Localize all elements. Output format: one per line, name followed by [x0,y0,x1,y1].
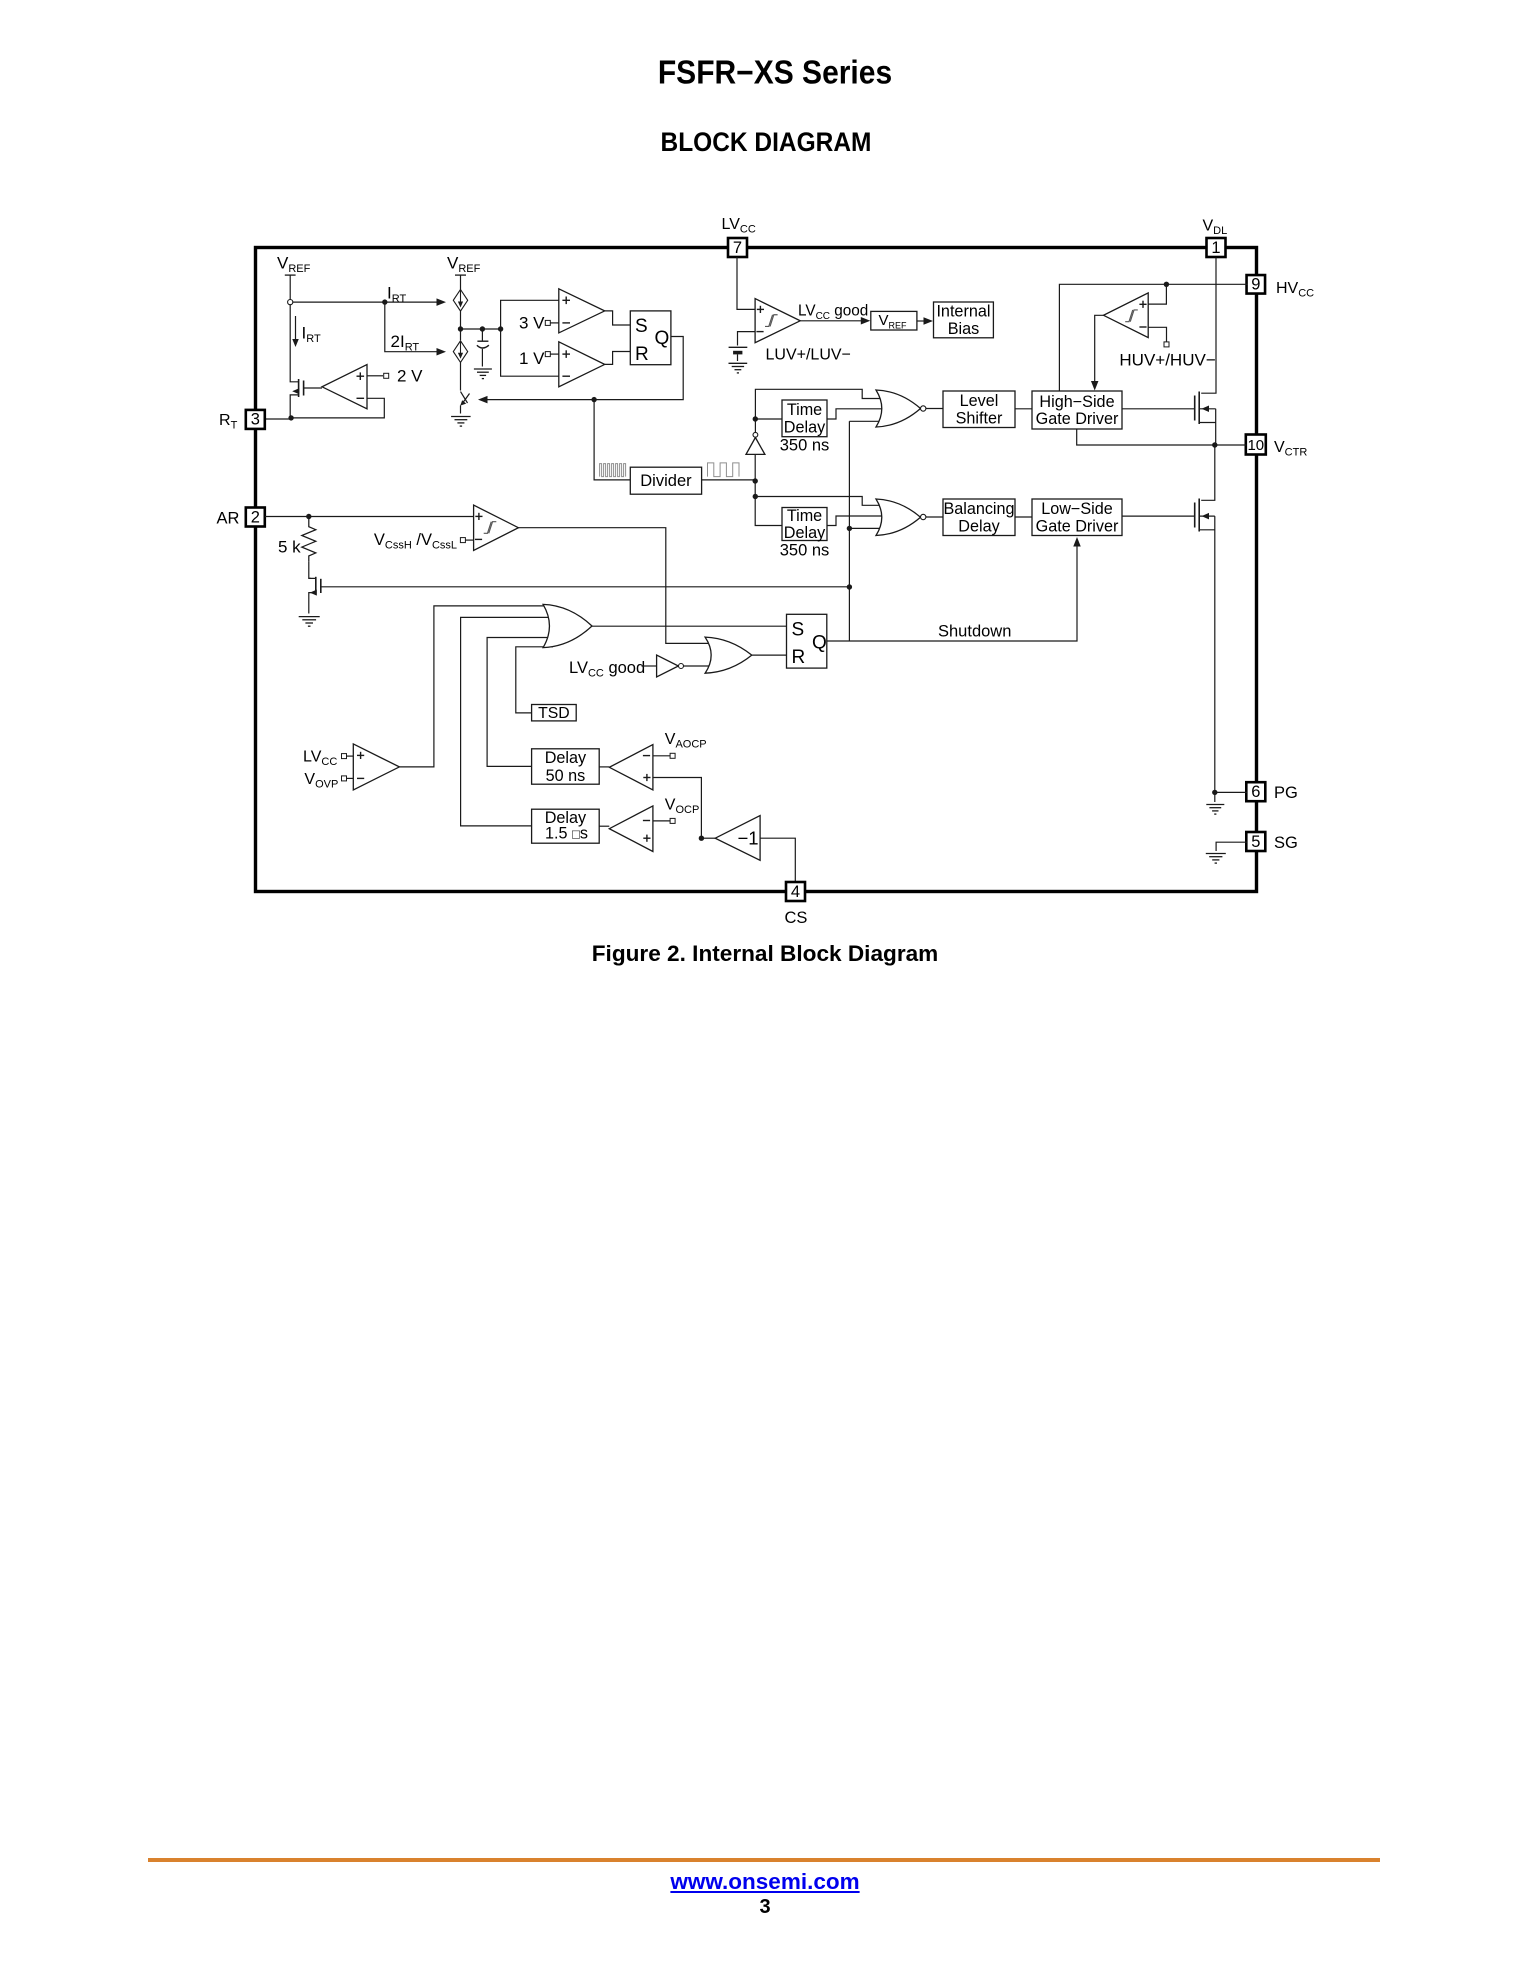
wire [599,766,609,768]
wire to NOR2 direct [755,497,882,506]
arrowhead [1073,537,1081,547]
transistor Q4 (soft-start reset) [315,577,317,595]
ground [474,368,492,370]
svg-text:5: 5 [1251,833,1260,851]
wire [347,755,354,757]
wire op-amp + input [367,375,383,377]
wire + input [1148,284,1166,304]
wire AOCP + input [653,778,702,839]
wire [701,837,715,839]
svg-text:350 ns: 350 ns [780,437,830,455]
waveform glyph (high-freq) [600,464,626,477]
svg-text:VOCP: VOCP [665,797,700,817]
svg-text:RT: RT [219,412,238,432]
delay 1.5 us block [532,809,600,843]
wire TD1 to NOR [827,409,884,419]
comparator U12 (OVP) [353,744,399,790]
pin 9 (HVCC) [1247,275,1266,294]
svg-text:IRT: IRT [302,324,321,346]
wire OVP to OR input 1 [399,606,553,767]
pin 7 (LVCC) [728,238,747,257]
wire HVCC rail [1059,284,1247,391]
svg-text:Balancing: Balancing [943,500,1014,518]
svg-text:Delay: Delay [784,419,826,437]
wire I_RT to current source [293,301,437,303]
junction [1212,790,1217,795]
arrowhead [478,396,488,404]
svg-text:VDL: VDL [1203,218,1228,238]
wire VCTR rail [1077,429,1247,445]
junction [753,494,758,499]
wire [460,275,462,289]
ground SG [1206,853,1226,855]
wire [460,362,462,390]
comparator U14 (OCP) [609,806,653,852]
wire shutdown to NOR2 [849,527,886,529]
divider block [630,467,701,494]
svg-text:1: 1 [1211,239,1220,257]
wire delay1.5 to OR input 2 [461,617,551,826]
pin 5 (SG) [1246,832,1265,851]
inverting amp U15 (-1) [715,816,760,861]
wire [550,322,559,324]
svg-text:7: 7 [733,239,742,257]
wire [1216,842,1247,851]
svg-text:Q: Q [812,633,827,654]
svg-text:Bias: Bias [948,320,980,338]
pin 3 (RT) [246,410,265,429]
wire [755,481,782,526]
junction [498,326,503,331]
wire comparator output to OR [518,528,716,644]
current flow arrow I_RT [295,316,297,342]
arrowhead [437,298,447,306]
wire [550,353,559,355]
terminal VCssH/VCssL [460,538,465,543]
junction [591,397,596,402]
wire [1015,408,1032,410]
svg-text:S: S [792,620,805,641]
svg-text:VCssH /VCssL: VCssH /VCssL [374,531,457,552]
svg-text:LVCC: LVCC [722,216,756,236]
wire NOR1 out [926,408,943,410]
terminal VOCP [670,818,675,823]
junction [306,514,311,519]
junction [699,836,704,841]
wire TD2 to NOR [827,516,884,526]
svg-text:6: 6 [1251,783,1260,801]
wire [460,311,462,340]
pin 6 (PG) [1246,782,1265,801]
wire NOR2 out [926,516,943,518]
wire - input [738,332,756,346]
wire TSD to OR input 4 [516,647,553,713]
pin 2 (AR) [246,508,265,527]
TSD block [532,705,577,721]
svg-text:3: 3 [251,411,260,429]
wire shutdown to NOR1 [849,420,886,422]
transistor Q1 (current mirror) [298,379,300,397]
wire [754,455,756,481]
wire to divider [594,400,630,480]
svg-text:2: 2 [251,508,260,526]
wire [465,539,473,541]
wire to capacitor and comparators [461,328,501,330]
svg-text:Delay: Delay [784,524,826,542]
svg-text:Time: Time [787,401,822,419]
svg-text:Internal: Internal [936,303,990,321]
wire to time delay 1 [755,418,782,420]
wire [653,820,670,822]
terminal 3V [545,320,550,325]
svg-text:PG: PG [1274,784,1298,802]
svg-text:Divider: Divider [640,472,692,490]
terminal LVCC [342,754,347,759]
IC boundary box [256,248,1257,892]
svg-text:50 ns: 50 ns [546,767,586,785]
wire [289,275,291,299]
svg-text:R: R [792,647,806,668]
comparator U3 (1V) [559,342,605,387]
wire LVCC good [800,320,861,322]
svg-text:−1: −1 [738,828,759,849]
junction [753,416,758,421]
wire [653,755,670,757]
time delay block TD2 [782,508,827,541]
wire [1215,791,1247,793]
arrowhead [1091,381,1099,391]
internal bias block [934,302,994,338]
wire shutdown riser [848,421,850,641]
svg-text:Shutdown: Shutdown [938,623,1011,641]
svg-text:LVCC: LVCC [303,749,337,769]
wire divider output [702,479,756,481]
svg-text:AR: AR [217,510,240,528]
wire pin7 to comparator [737,257,755,309]
wire OR to S [592,625,787,627]
wire [290,305,298,382]
wire to pin 3 [265,418,291,420]
svg-text:LVCC good: LVCC good [798,303,868,323]
svg-text:Gate Driver: Gate Driver [1036,518,1119,536]
svg-text:VCTR: VCTR [1274,439,1307,459]
svg-text:Q: Q [655,328,670,349]
terminal HUV [1164,342,1169,347]
wire [1015,516,1032,518]
wire comparator U2 to S [605,311,631,325]
svg-text:VREF: VREF [447,254,481,276]
wire HUV output [1095,315,1104,382]
wire OR to R [752,654,787,656]
svg-text:Shifter: Shifter [956,410,1003,428]
junction [1212,442,1217,447]
wire [917,320,924,322]
comparator U9 (LVCC UVLO) [755,299,800,343]
svg-text:10: 10 [1247,437,1264,454]
arrowhead [437,348,447,356]
terminal VAOCP [670,753,675,758]
svg-text:LUV+/LUV−: LUV+/LUV− [766,347,851,364]
OR gate U11 (fault OR) [543,604,592,647]
svg-text:SG: SG [1274,834,1298,852]
wire [642,665,657,667]
junction [847,526,852,531]
wire Q feedback to switch [480,337,683,400]
svg-text:VOVP: VOVP [304,771,338,791]
current source CS2 (2I_RT) [453,341,467,363]
wire 2I_RT branch [385,302,437,352]
wire pin1 drop [1201,258,1216,394]
svg-text:HVCC: HVCC [1276,280,1314,300]
ground [451,416,471,418]
svg-text:1 V: 1 V [519,349,545,368]
wire [1201,445,1215,500]
wire [599,825,609,827]
svg-text:Low−Side: Low−Side [1041,500,1113,518]
arrowhead [924,317,934,325]
svg-text:2 V: 2 V [397,367,423,386]
transistor Q2 (high-side MOSFET) [1198,392,1200,425]
svg-text:5 k: 5 k [278,538,301,557]
svg-text:S: S [635,316,648,337]
NOR gate U6 [876,390,921,427]
ground PG [1206,804,1224,806]
junction [847,584,852,589]
junction [382,299,387,304]
svg-text:R: R [635,344,649,365]
wire op-amp feedback [291,398,384,418]
pin 1 (VDL) [1207,238,1226,257]
terminal 2V [384,373,389,378]
svg-text:VAOCP: VAOCP [665,731,707,751]
pin 10 (VCTR) [1246,435,1266,455]
level shifter block [943,391,1015,428]
comparator U7 (HUV) [1104,293,1149,338]
svg-text:Level: Level [960,392,999,410]
wire - input to terminal [1148,327,1166,341]
svg-text:4: 4 [791,883,800,901]
high-side gate driver block [1032,391,1122,429]
low-side gate driver block [1032,499,1122,536]
wire comparator U3 to R [605,352,631,365]
comparator U13 (AOCP) [609,745,653,790]
VREF regulator box [871,311,917,330]
ground [299,616,320,618]
time delay block TD1 [782,400,827,437]
svg-text:1.5 □s: 1.5 □s [545,825,588,843]
current source CS1 (I_RT) [453,290,467,312]
junction [458,326,463,331]
capacitor C1 [481,329,483,341]
waveform glyph (low-freq) [708,463,739,477]
svg-text:350 ns: 350 ns [780,542,830,560]
wire [309,561,311,578]
balancing delay block [943,499,1015,536]
OR gate U17 [705,637,752,673]
wire delay50 to OR input 3 [487,638,553,767]
switch SW1 (oscillator discharge) [461,392,468,403]
junction [480,326,485,331]
svg-text:Time: Time [787,507,822,525]
pin 4 (CS) [786,882,805,901]
terminal VOVP [342,776,347,781]
wire inverted phase [755,389,882,432]
SR latch U4 [630,311,671,365]
svg-text:2IRT: 2IRT [391,332,420,354]
wire to CS pin [760,838,795,882]
junction [1164,282,1169,287]
SR latch U18 (shutdown) [787,614,827,668]
transistor Q3 (low-side MOSFET) [1198,499,1200,532]
svg-text:High−Side: High−Side [1039,393,1114,411]
svg-text:9: 9 [1251,276,1260,294]
svg-text:Delay: Delay [545,749,587,767]
comparator U2 (3V) [559,289,605,333]
svg-text:VREF: VREF [277,254,311,276]
battery reference [729,346,748,348]
wire [1214,792,1216,802]
NOR gate U8 [876,499,921,536]
wire [347,777,354,779]
arrowhead [861,317,871,325]
svg-text:CS: CS [785,909,808,927]
inverter U5 [746,438,765,455]
svg-text:HUV+/HUV−: HUV+/HUV− [1119,351,1215,370]
ground [729,362,748,364]
node (open circle) [288,300,293,305]
comparator U10 (soft-start VCss) [474,505,519,550]
terminal 1V [545,352,550,357]
resistor R1 (5 k) [302,517,316,562]
svg-text:Delay: Delay [958,518,1000,536]
svg-text:LVCC good: LVCC good [569,659,645,680]
delay 50 ns block [532,749,600,784]
svg-text:3 V: 3 V [519,314,545,333]
junction node A [753,478,758,483]
wire shutdown [827,546,1077,641]
svg-text:TSD: TSD [538,705,570,722]
wire to comparator inputs [501,300,559,376]
svg-text:IRT: IRT [387,284,406,306]
wire pin2 to comparator [265,516,474,518]
op-amp U1 (2V clamp) [322,365,367,409]
svg-text:Gate Driver: Gate Driver [1036,410,1119,428]
inverter U16 [657,655,679,677]
wire [684,665,717,667]
junction [288,415,293,420]
